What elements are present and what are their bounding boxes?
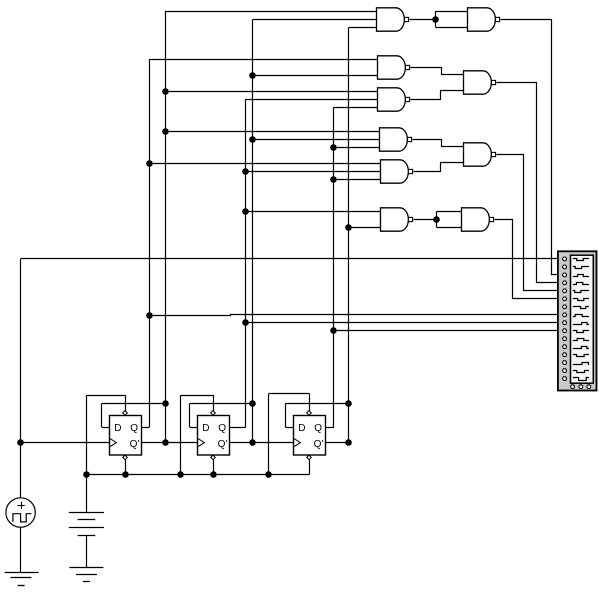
wire FF2 Q to U7 input 2 — [246, 171, 381, 173]
node FF1 clear junction — [122, 471, 129, 478]
wire FF1 clear pin to bus — [125, 459, 127, 474]
wire node to U10 inputs — [437, 212, 462, 228]
wire FF3 Q-bar to U1 input 3 — [349, 27, 377, 29]
svg-text:Q’: Q’ — [130, 439, 140, 450]
flip-flop FF3 — [293, 411, 326, 460]
nand gate U2 — [468, 8, 500, 31]
node FF3 Q / display junction — [330, 327, 337, 334]
wire FF3 D input drop — [285, 404, 293, 428]
wire FF2 Q-bar to U6 input 2 — [253, 139, 380, 141]
node FF2 Q-bar junction — [249, 439, 256, 446]
nand gate U7 — [381, 160, 413, 183]
nand gate U8 — [464, 143, 496, 166]
svg-text:Q’: Q’ — [218, 439, 228, 450]
wire FF1 Q-bar output to FF2 clock — [141, 442, 197, 444]
wire clock to display pin 1 — [21, 258, 563, 260]
wire U1 output to node — [410, 19, 436, 21]
display DS1 bottom pins — [571, 385, 591, 389]
wire FF3 D feedback horizontal — [285, 403, 349, 405]
wire FF1 Q vertical bus — [149, 59, 151, 427]
flip-flop FF2 — [197, 411, 230, 460]
svg-text:D: D — [114, 423, 121, 434]
wire FF1 D feedback horizontal — [102, 403, 165, 405]
node FF2 D feedback junction — [249, 400, 256, 407]
svg-text:Q: Q — [130, 423, 138, 434]
node FF2 clear junction — [210, 471, 217, 478]
wire FF2 Q output stub — [230, 427, 246, 429]
wire battery to ground — [86, 535, 88, 567]
wire FF3 clear pin to bus — [309, 459, 311, 474]
ground for clock source — [5, 573, 39, 586]
nand gate U10 — [462, 208, 494, 231]
node FF1 Q-bar / U4 junction — [162, 88, 169, 95]
wire FF2 Q to display pin 9 — [246, 322, 563, 324]
wire clock to FF1 clock input — [21, 442, 110, 444]
wire FF3 Q-bar to U9 input 2 — [349, 227, 381, 229]
node FF3 Q / U7 junction — [330, 176, 337, 183]
nand gate U5 — [464, 71, 496, 94]
wire FF3 Q to U7 input 3 — [334, 179, 381, 181]
wire FF1 Q to U3 input 1 — [149, 59, 377, 61]
wire FF2 D feedback horizontal — [190, 403, 253, 405]
node FF3 Q-bar / U9 junction — [345, 224, 352, 231]
display DS1 waveform glyphs — [573, 259, 589, 381]
wire FF2 Q vertical bus — [245, 99, 247, 427]
wire FF1 Q to display pin 8 — [150, 315, 563, 316]
wire FF1 Q-bar to U1 input 1 — [165, 11, 376, 13]
wire U6 output to U8 input 1 — [413, 140, 464, 147]
wire FF2 D input drop — [190, 404, 198, 428]
node FF1 Q / U7 junction — [146, 160, 153, 167]
display DS1 input pins — [563, 257, 567, 381]
svg-text:Q’: Q’ — [314, 439, 324, 450]
wire FF1 Q output stub — [141, 427, 149, 429]
node FF1 preset / ground bus junction — [83, 471, 90, 478]
node FF1 Q-bar junction — [162, 439, 169, 446]
wire FF1 Q to U7 input 1 — [149, 163, 380, 165]
wire FF1 preset loop — [86, 395, 125, 474]
wire U8 output to display pin 5 — [497, 155, 563, 291]
wire FF2 Q-bar output to FF3 clock — [230, 442, 293, 444]
wire U3 output to U5 input 1 — [411, 68, 464, 75]
svg-text:D: D — [298, 423, 305, 434]
wire U4 output to U5 input 2 — [411, 91, 464, 100]
wire FF2 preset loop — [181, 395, 214, 474]
wire clock source to ground — [20, 527, 22, 572]
node FF1 D feedback junction — [162, 400, 169, 407]
wire node to U2 inputs — [436, 11, 468, 27]
svg-text:Q: Q — [218, 423, 226, 434]
wire FF3 Q vertical bus — [333, 107, 335, 427]
wire FF1 Q-bar vertical bus — [165, 11, 167, 442]
wire FF2 Q to U9 input 1 — [246, 211, 381, 213]
node FF2 Q / U7 junction — [242, 168, 249, 175]
node FF2 Q / U9 junction — [242, 208, 249, 215]
wire FF3 Q output stub — [326, 427, 334, 429]
node FF3 preset / ground bus junction — [265, 471, 272, 478]
wire FF1 Q-bar to U6 input 1 — [165, 131, 379, 133]
wire U9 output to node — [414, 219, 437, 221]
flip-flop FF1 — [109, 411, 142, 460]
wire FF2 clear pin to bus — [213, 459, 215, 474]
wire FF3 Q-bar output stub — [326, 442, 349, 444]
display DS1 body — [558, 251, 597, 390]
nand gate U4 — [378, 88, 410, 111]
wire U2 output to display pin 3 — [501, 20, 563, 275]
svg-text:D: D — [202, 423, 209, 434]
wire FF3 Q to display pin 10 — [334, 330, 563, 332]
wire U10 output to display pin 6 — [495, 220, 563, 299]
wire U7 output to U8 input 2 — [414, 163, 464, 172]
wire FF3 Q to U4 input 3 — [334, 107, 378, 109]
wire FF2 Q to U4 input 2 — [246, 99, 378, 101]
nand gate U3 — [378, 56, 410, 79]
node FF1 Q / display junction — [146, 312, 153, 319]
nand gate U1 — [377, 8, 409, 31]
node FF2 Q-bar / U6 junction — [249, 136, 256, 143]
node U9 output junction — [433, 216, 440, 223]
wire FF3 Q-bar vertical bus — [348, 27, 350, 442]
node FF2 preset / ground bus junction — [177, 471, 184, 478]
wire ground bus — [86, 474, 309, 476]
wire FF3 preset loop — [269, 394, 310, 475]
wire FF1 Q-bar to U4 input 1 — [165, 91, 377, 93]
battery BT1 — [69, 474, 104, 535]
nand gate U6 — [380, 128, 412, 151]
node FF1 Q-bar / U6 junction — [162, 128, 169, 135]
node FF3 Q / U6 junction — [330, 144, 337, 151]
node clock junction — [17, 439, 24, 446]
wire FF2 Q-bar to U1 input 2 — [253, 19, 377, 21]
wire U5 output to display pin 4 — [497, 83, 563, 283]
clock source V1 — [6, 498, 35, 527]
wire FF2 Q-bar vertical bus — [252, 19, 254, 442]
wire clock net vertical to display row — [20, 259, 22, 498]
svg-text:Q: Q — [314, 423, 322, 434]
node FF3 D feedback junction — [345, 400, 352, 407]
wire FF3 Q to U6 input 3 — [334, 147, 380, 149]
nand gate U9 — [381, 208, 413, 231]
node FF3 Q-bar junction — [345, 439, 352, 446]
wire FF2 Q-bar to U3 input 2 — [253, 75, 378, 77]
node FF2 Q-bar / U3 junction — [249, 72, 256, 79]
ground for battery — [69, 568, 103, 582]
wire FF1 D input drop — [102, 404, 110, 428]
node U1 output junction — [432, 16, 439, 23]
node FF2 Q / display junction — [242, 319, 249, 326]
